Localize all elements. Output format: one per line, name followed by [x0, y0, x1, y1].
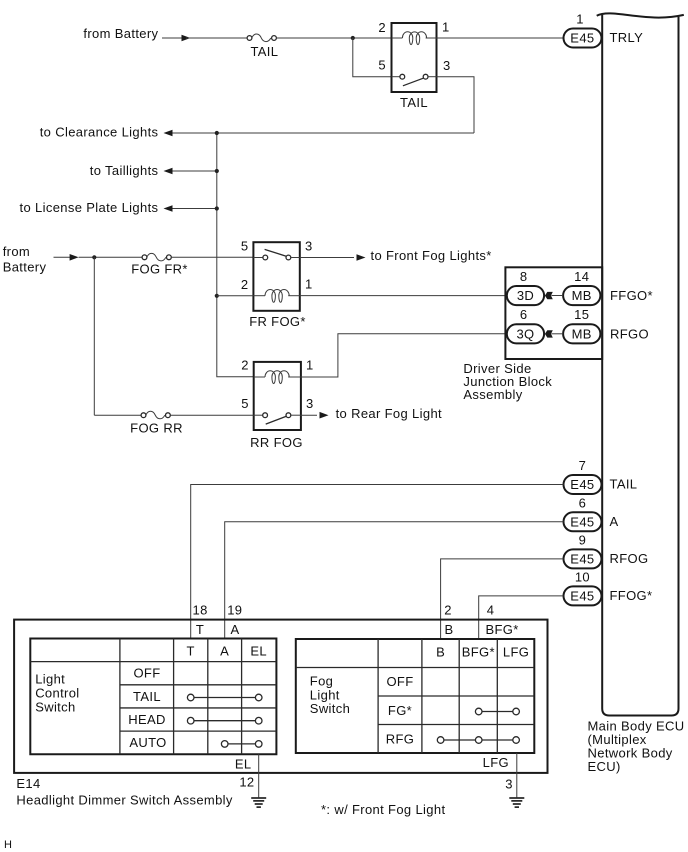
svg-text:E45: E45: [570, 589, 594, 604]
svg-text:Switch: Switch: [35, 699, 75, 714]
svg-text:TAIL: TAIL: [610, 477, 638, 492]
svg-text:3: 3: [505, 777, 513, 792]
svg-text:LFG: LFG: [483, 755, 509, 770]
svg-text:OFF: OFF: [133, 666, 160, 681]
svg-text:19: 19: [227, 602, 242, 617]
svg-text:from: from: [3, 244, 30, 259]
svg-text:to Front Fog Lights*: to Front Fog Lights*: [371, 248, 492, 263]
svg-text:7: 7: [579, 458, 587, 473]
svg-text:1: 1: [576, 12, 584, 27]
svg-text:3: 3: [443, 58, 451, 73]
svg-text:T: T: [187, 644, 195, 659]
svg-text:Fog: Fog: [310, 674, 333, 689]
svg-text:MB: MB: [572, 288, 592, 303]
svg-text:3Q: 3Q: [516, 327, 534, 342]
svg-text:E45: E45: [570, 477, 594, 492]
svg-text:2: 2: [378, 20, 386, 35]
svg-text:9: 9: [579, 532, 587, 547]
svg-text:A: A: [220, 644, 229, 659]
svg-text:E45: E45: [570, 552, 594, 567]
svg-text:to Taillights: to Taillights: [90, 163, 159, 178]
svg-text:TAIL: TAIL: [250, 44, 278, 59]
svg-text:FOG FR*: FOG FR*: [131, 262, 188, 277]
svg-text:2: 2: [241, 277, 249, 292]
svg-text:to Clearance Lights: to Clearance Lights: [40, 125, 159, 140]
svg-text:5: 5: [378, 58, 386, 73]
svg-text:FR FOG*: FR FOG*: [249, 314, 306, 329]
svg-text:B: B: [436, 645, 445, 660]
svg-text:3: 3: [306, 396, 314, 411]
svg-text:to Rear Fog Light: to Rear Fog Light: [336, 406, 442, 421]
svg-text:1: 1: [306, 358, 314, 373]
svg-text:8: 8: [520, 269, 528, 284]
svg-text:TAIL: TAIL: [133, 689, 161, 704]
svg-text:BFG*: BFG*: [462, 645, 495, 660]
svg-text:Battery: Battery: [3, 259, 47, 274]
svg-text:Control: Control: [35, 686, 79, 701]
svg-text:TRLY: TRLY: [610, 30, 644, 45]
svg-text:2: 2: [241, 358, 249, 373]
svg-text:FFGO*: FFGO*: [610, 288, 653, 303]
svg-text:RFOG: RFOG: [610, 551, 649, 566]
svg-text:LFG: LFG: [503, 645, 529, 660]
svg-text:E14: E14: [16, 776, 40, 791]
svg-text:from Battery: from Battery: [83, 26, 158, 41]
svg-text:RFGO: RFGO: [610, 327, 649, 342]
svg-text:12: 12: [239, 774, 254, 789]
svg-text:1: 1: [442, 19, 450, 34]
svg-text:OFF: OFF: [386, 674, 413, 689]
svg-text:6: 6: [520, 307, 528, 322]
svg-text:to License Plate Lights: to License Plate Lights: [20, 200, 159, 215]
svg-text:ECU): ECU): [588, 759, 621, 774]
svg-text:FOG RR: FOG RR: [130, 421, 183, 436]
svg-text:EL: EL: [250, 644, 267, 659]
svg-text:1: 1: [305, 276, 313, 291]
svg-text:TAIL: TAIL: [400, 95, 428, 110]
svg-text:14: 14: [574, 269, 589, 284]
svg-text:3: 3: [305, 239, 313, 254]
svg-text:RR FOG: RR FOG: [250, 435, 303, 450]
svg-text:FG*: FG*: [388, 703, 412, 718]
svg-text:HEAD: HEAD: [128, 712, 166, 727]
svg-text:B: B: [444, 622, 453, 637]
svg-text:H: H: [4, 839, 12, 851]
svg-text:E45: E45: [570, 31, 594, 46]
svg-text:AUTO: AUTO: [129, 735, 166, 750]
svg-text:Light: Light: [310, 687, 340, 702]
svg-text:BFG*: BFG*: [486, 622, 519, 637]
svg-text:A: A: [610, 514, 619, 529]
svg-text:10: 10: [575, 569, 590, 584]
svg-text:MB: MB: [572, 327, 592, 342]
svg-text:6: 6: [579, 495, 587, 510]
svg-text:5: 5: [241, 239, 249, 254]
svg-text:E45: E45: [570, 514, 594, 529]
svg-text:A: A: [230, 622, 239, 637]
svg-text:*: w/ Front Fog Light: *: w/ Front Fog Light: [321, 802, 445, 817]
svg-text:RFG: RFG: [386, 731, 415, 746]
svg-text:Light: Light: [35, 672, 65, 687]
svg-text:EL: EL: [235, 756, 252, 771]
svg-text:3D: 3D: [517, 288, 534, 303]
svg-text:Headlight Dimmer Switch Assemb: Headlight Dimmer Switch Assembly: [16, 792, 233, 807]
svg-text:5: 5: [241, 396, 249, 411]
svg-text:T: T: [196, 622, 204, 637]
svg-text:Switch: Switch: [310, 701, 350, 716]
svg-text:Assembly: Assembly: [463, 387, 522, 402]
svg-text:4: 4: [487, 602, 495, 617]
svg-text:18: 18: [193, 602, 208, 617]
svg-text:15: 15: [574, 307, 589, 322]
svg-text:2: 2: [444, 602, 452, 617]
svg-text:FFOG*: FFOG*: [610, 588, 653, 603]
